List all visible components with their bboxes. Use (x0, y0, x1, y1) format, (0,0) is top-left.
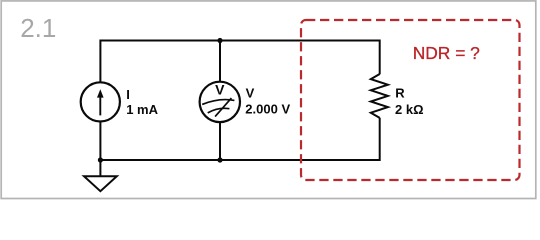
svg-text:NDR = ?: NDR = ? (413, 43, 480, 63)
svg-text:V: V (246, 86, 255, 101)
resistor R (371, 74, 388, 118)
value label 1 mA (126, 102, 158, 117)
svg-text:1 mA: 1 mA (126, 102, 158, 117)
annotation box (red dashed) (301, 20, 520, 180)
figure label 2.1 (20, 13, 56, 43)
wire: node A down to voltmeter top (219, 41, 221, 82)
value label 2 kOhm (395, 102, 424, 117)
label V (246, 86, 255, 101)
svg-text:2.000 V: 2.000 V (245, 101, 290, 116)
label R (395, 85, 405, 100)
svg-text:I: I (126, 87, 130, 102)
ground (84, 160, 117, 191)
wire: node A to resistor top (top-right corner) (220, 41, 380, 75)
svg-text:2 kΩ: 2 kΩ (395, 102, 424, 117)
annotation text NDR = ? (413, 43, 480, 63)
wire: current source bottom to ground node (99, 122, 101, 160)
svg-text:R: R (395, 85, 405, 100)
wire: bottom rail left (ground node to voltmeter bottom) (100, 159, 220, 161)
wire: voltmeter bottom drop (219, 122, 221, 160)
wire: bottom rail right to resistor bottom (bottom-right corner) (220, 118, 380, 160)
current source I (81, 82, 120, 121)
wire: current source top to node A (top-left corner) (100, 41, 220, 83)
ground node junction dot (98, 157, 103, 162)
svg-text:2.1: 2.1 (20, 13, 56, 43)
voltmeter bottom junction dot (217, 157, 222, 162)
label I (126, 87, 130, 102)
value label 2.000 V (245, 101, 290, 116)
voltmeter U1 (200, 82, 240, 123)
svg-text:V: V (215, 82, 225, 98)
node A junction dot (217, 38, 222, 43)
